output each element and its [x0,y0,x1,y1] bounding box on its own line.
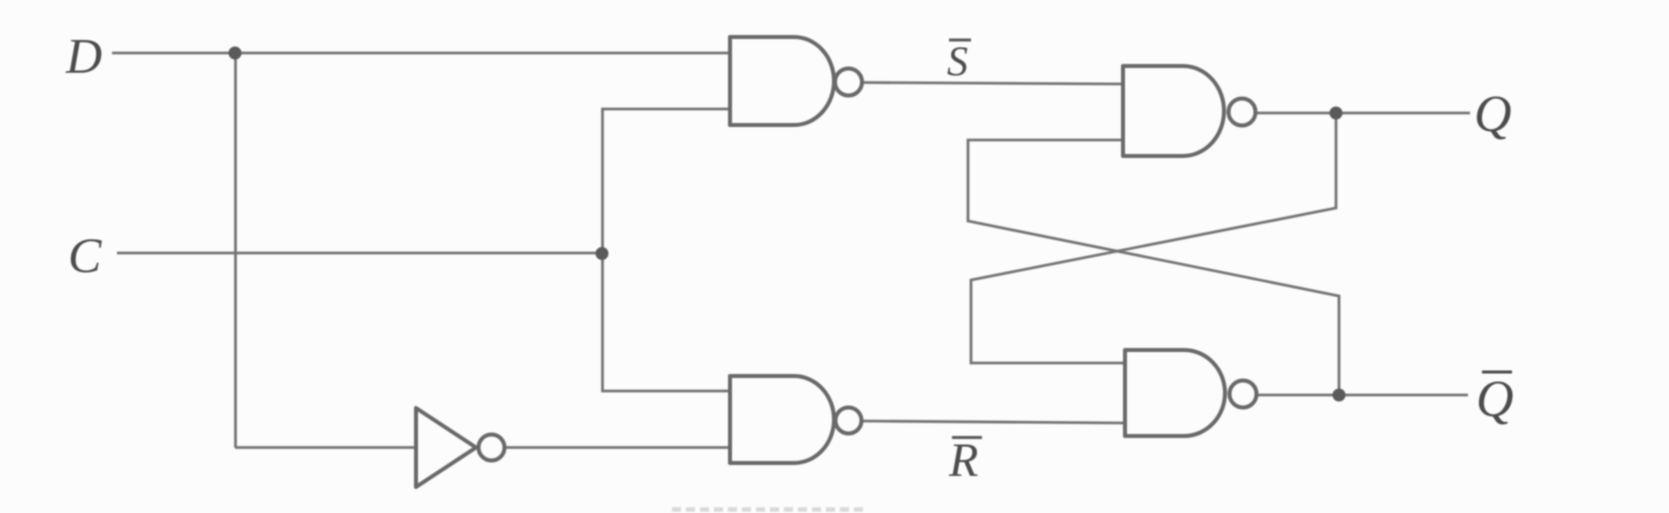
NAND gate U1 body (top left) [730,37,834,125]
wire D branch vertical [234,53,237,448]
caption remnant (cropped text at bottom) [672,507,865,512]
svg-text:C: C [68,227,102,283]
NAND gate U3 bubble [1229,99,1256,126]
wire D input [112,52,730,55]
svg-text:D: D [65,28,102,84]
wire Q output [1256,112,1470,115]
svg-text:S: S [947,40,968,86]
svg-text:Q: Q [1474,86,1512,143]
wire Q feedback to lower gate [971,113,1336,363]
NAND gate U4 bubble [1230,381,1257,408]
NAND gate U3 body (top right) [1123,66,1224,156]
wire Q-bar output [1257,394,1468,397]
wire C branch down [603,253,731,391]
wire Q-bar feedback to upper gate [968,140,1339,395]
node Q junction [1330,107,1343,120]
wire R-bar [862,421,1125,423]
wire D branch to inverter [235,446,416,449]
svg-text:R: R [948,434,978,487]
svg-text:Q: Q [1476,371,1514,428]
wire S-bar [861,83,1123,85]
label Q-bar [1476,371,1514,428]
inverter U5 triangle [416,408,476,487]
NAND gate U4 body (bottom right) [1125,350,1225,436]
wire C input [117,252,603,255]
NAND gate U1 bubble [835,69,862,96]
NAND gate U2 bubble [836,408,862,434]
node C branch junction [596,247,609,260]
NAND gate U2 body (bottom left) [730,376,834,463]
wire C branch up [603,109,731,253]
inverter U5 bubble [479,435,505,461]
node Q-bar junction [1333,389,1346,402]
label R-bar [948,434,982,487]
wire inverter output [505,446,730,449]
node D branch junction [229,47,242,60]
label S-bar [947,40,971,86]
